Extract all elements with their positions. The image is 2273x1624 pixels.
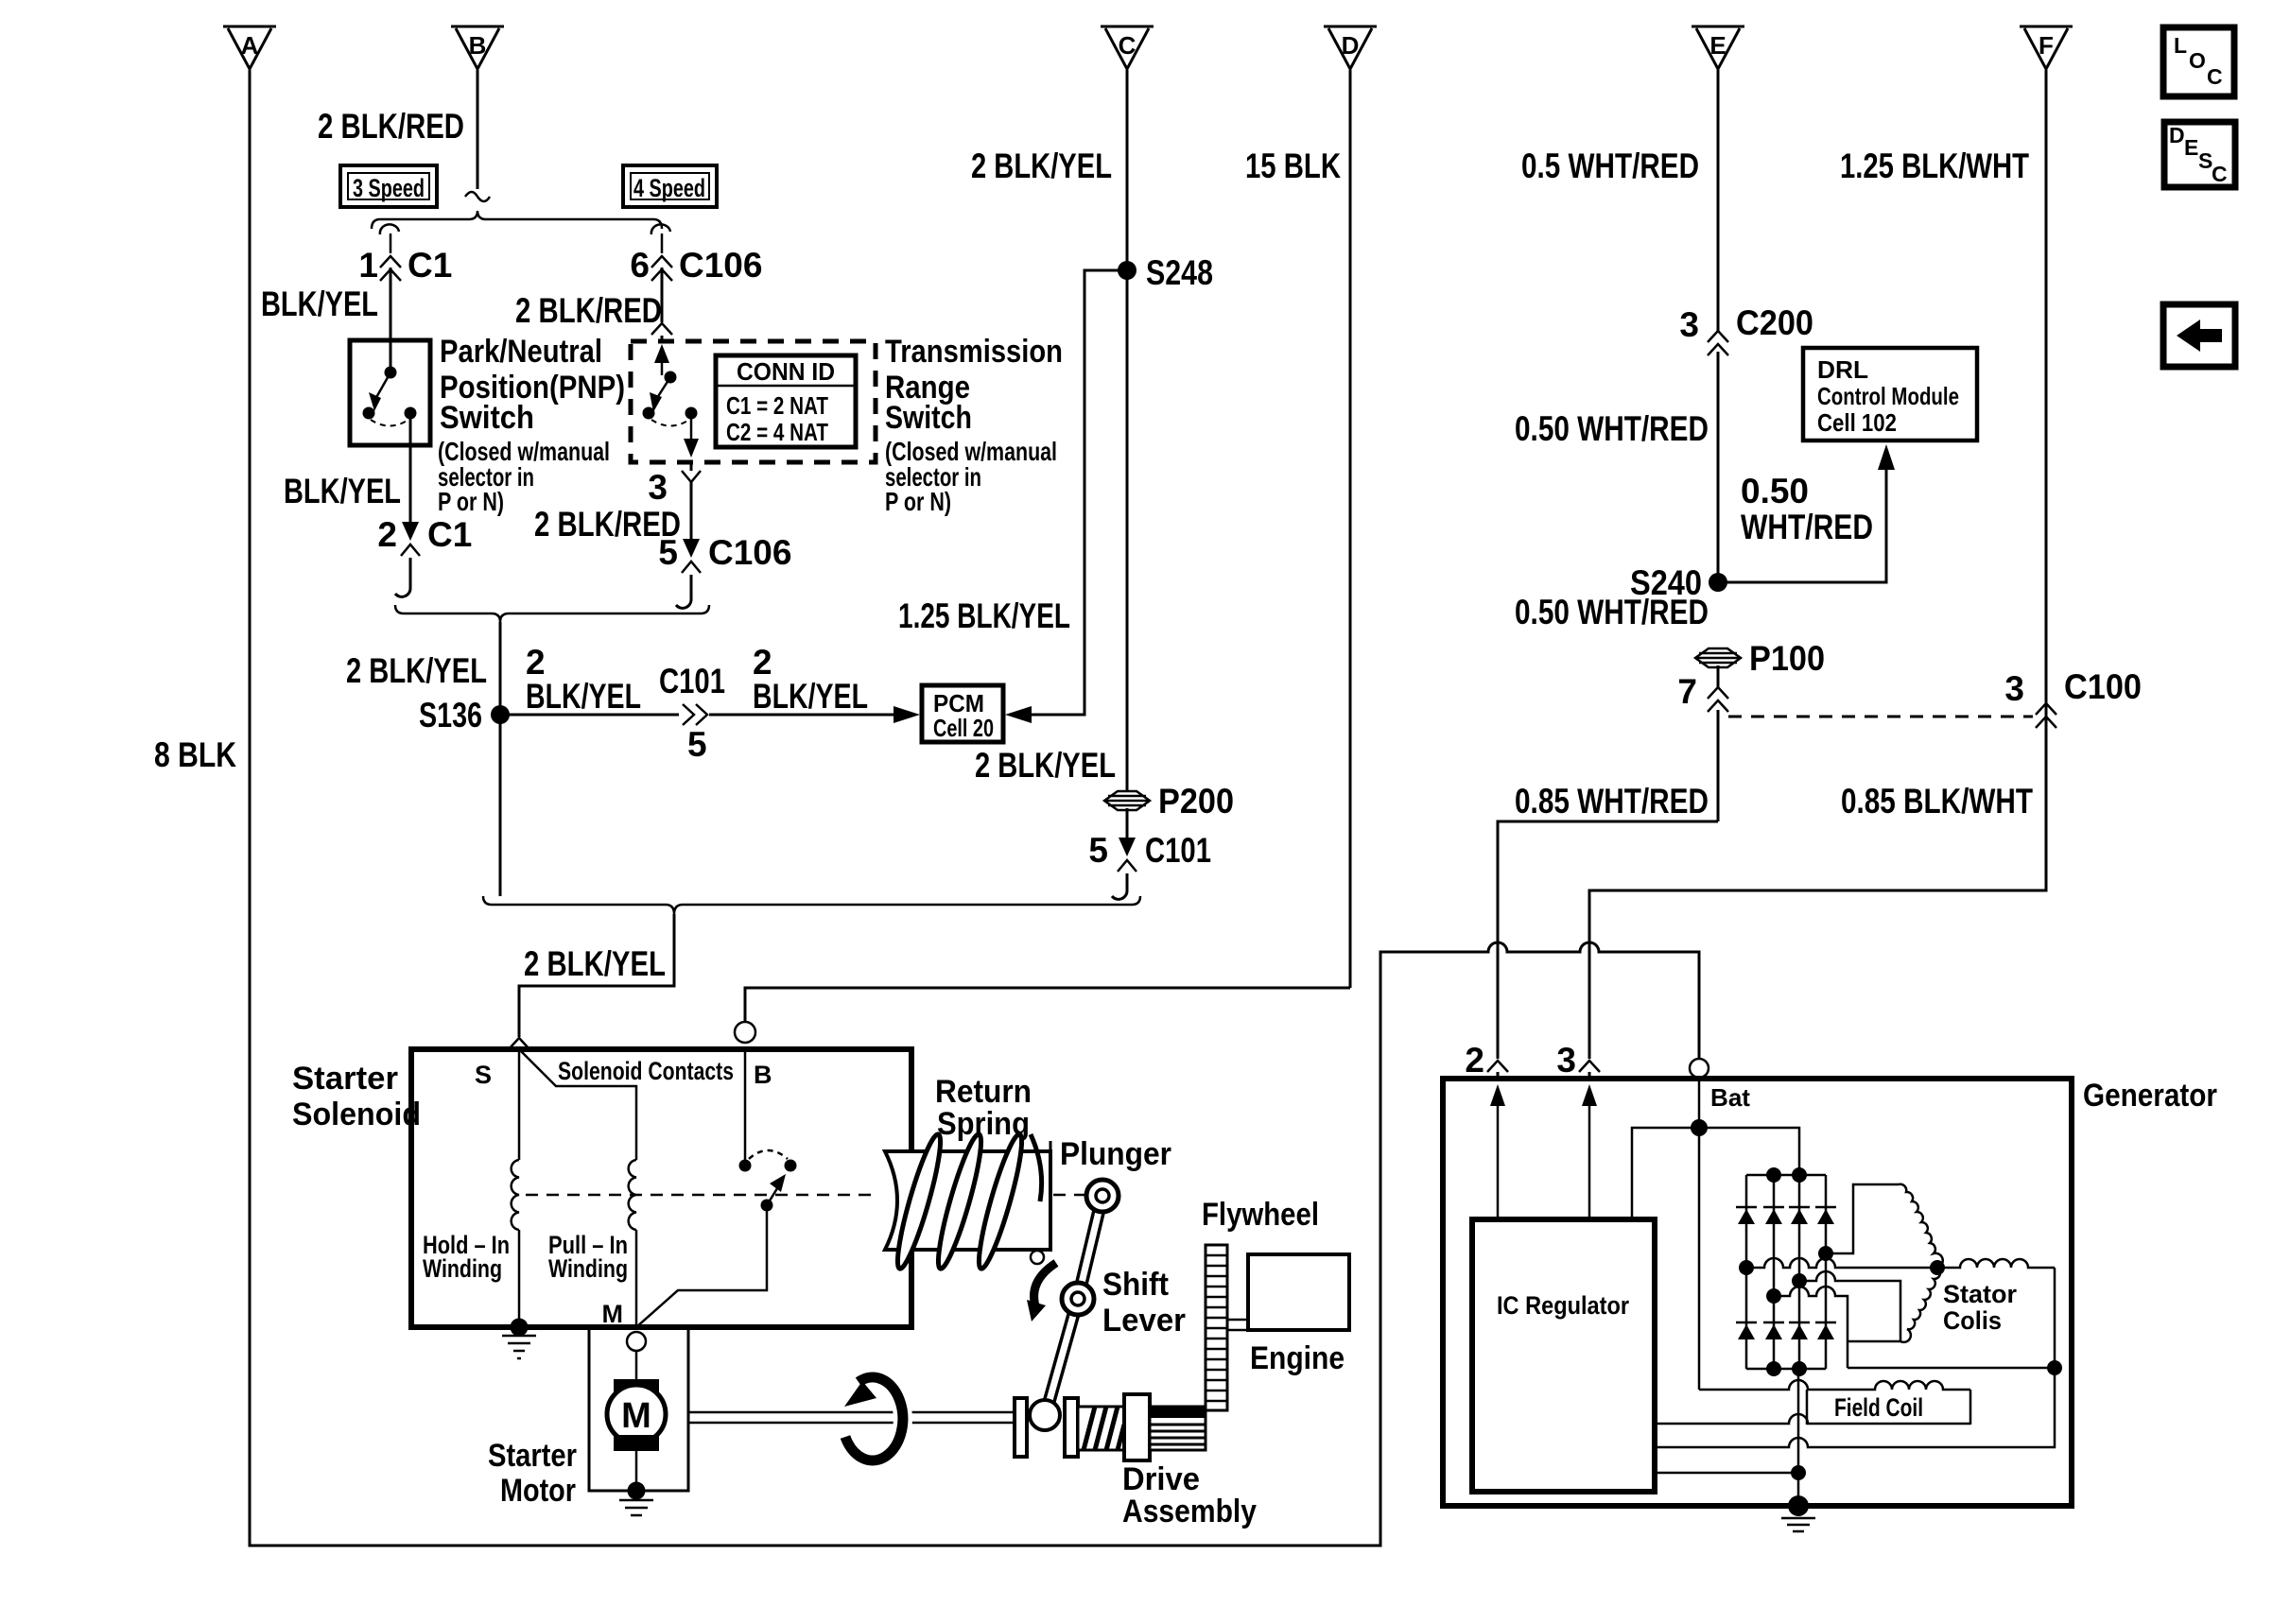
wire stator phase 2: [1799, 1271, 1900, 1341]
stator coil 2 (wavy): [1899, 1184, 1943, 1268]
pull-in winding coil: [629, 1160, 636, 1230]
svg-text:Starter: Starter: [292, 1061, 398, 1097]
svg-text:Solenoid Contacts: Solenoid Contacts: [558, 1057, 734, 1085]
junction col4 coil2 tap: [1818, 1246, 1833, 1261]
wire Bat into generator: [1698, 1078, 1701, 1128]
junction top rail col2: [1766, 1167, 1781, 1183]
connector C106 pin 6 hook: [651, 224, 670, 253]
svg-text:Field Coil: Field Coil: [1834, 1393, 1923, 1422]
solenoid fixed contact right: [785, 1160, 797, 1172]
svg-text:CONN ID: CONN ID: [737, 357, 835, 386]
wire terminal 2 into generator: [1497, 1072, 1500, 1079]
bridge column 3: [1798, 1175, 1801, 1369]
connector C106 pin 5 arrow: [683, 539, 700, 558]
svg-text:B: B: [469, 31, 487, 60]
wire 1.25 BLK/YEL S248 to PCM: [1032, 270, 1127, 715]
label Transmission Range Switch: [885, 334, 1063, 516]
LOC legend box: [2163, 27, 2234, 96]
svg-text:C106: C106: [708, 533, 791, 572]
svg-text:0.50 WHT/RED: 0.50 WHT/RED: [1515, 593, 1709, 631]
svg-text:C200: C200: [1736, 303, 1813, 342]
svg-text:2 BLK/RED: 2 BLK/RED: [318, 107, 464, 146]
TRS input arrow: [654, 344, 677, 384]
generator box: [1443, 1079, 2072, 1506]
back-arrow legend box: [2163, 304, 2235, 367]
svg-text:4 Speed: 4 Speed: [633, 174, 705, 202]
svg-text:Stator: Stator: [1943, 1280, 2017, 1308]
dashed wire pin7 to C100 pin3: [1728, 716, 2033, 718]
armature shaft: [688, 1412, 1015, 1423]
wire-drop triangle C: [1101, 26, 1154, 69]
splice S248: [1118, 261, 1136, 280]
svg-text:5: 5: [1088, 831, 1108, 870]
wire-drop triangle A: [223, 26, 276, 69]
Bat terminal circle: [1690, 1059, 1709, 1078]
label Starter Solenoid: [292, 1061, 421, 1132]
label Pull-In Winding: [548, 1231, 628, 1283]
svg-text:0.50: 0.50: [1741, 472, 1809, 510]
svg-text:L: L: [2174, 33, 2187, 58]
wire IC regulator output 1 (field): [1655, 1414, 1970, 1424]
svg-text:A: A: [241, 31, 259, 60]
solenoid fixed contact left: [739, 1160, 752, 1172]
junction stator star point: [1930, 1260, 1945, 1275]
svg-text:P100: P100: [1749, 639, 1825, 678]
junction top rail col3: [1792, 1167, 1807, 1183]
svg-text:6: 6: [630, 246, 650, 285]
wire pull-in to M terminal: [635, 1230, 638, 1327]
drive flange bar 3: [1124, 1394, 1150, 1460]
svg-text:P or N): P or N): [885, 487, 951, 516]
wire-drop triangle B: [451, 26, 504, 69]
generator input 3 arrow to IC regulator: [1582, 1084, 1597, 1219]
wire stator phase 1: [1746, 1258, 1937, 1268]
ground at hold-in winding: [502, 1319, 536, 1359]
wire 2 BLK/YEL S136 to C101: [500, 714, 679, 717]
svg-text:Assembly: Assembly: [1122, 1494, 1257, 1529]
wire hold-in to ground: [518, 1230, 521, 1327]
wire below P200: [1126, 808, 1129, 838]
wire-drop triangle E: [1692, 26, 1744, 69]
plunger body: [885, 1151, 1050, 1250]
rectifier bridge bottom rail: [1746, 1368, 1826, 1371]
shift lever mid pivot: [1062, 1283, 1094, 1315]
wire 8 BLK: A down left side, across bottom, up right of starter area, to Bat riser: [250, 70, 1699, 1546]
svg-text:BLK/YEL: BLK/YEL: [261, 285, 378, 323]
TRS movable arm: [643, 377, 671, 420]
solenoid contact dashed arc: [749, 1150, 788, 1159]
svg-text:C100: C100: [2064, 667, 2142, 706]
wire 0.5 WHT/RED E drop: [1717, 70, 1720, 582]
junction Bat node: [1691, 1119, 1708, 1136]
svg-text:2 BLK/YEL: 2 BLK/YEL: [524, 944, 666, 983]
starter motor brush bottom: [614, 1435, 659, 1451]
label Drive Assembly: [1122, 1461, 1257, 1529]
solenoid moving contact arm: [761, 1174, 787, 1212]
junction phase 3 tap: [1766, 1288, 1781, 1304]
wire 0.50 WHT/RED S240 to DRL: [1718, 444, 1895, 582]
svg-text:0.85 BLK/WHT: 0.85 BLK/WHT: [1841, 782, 2033, 821]
svg-text:C1: C1: [427, 515, 472, 554]
svg-text:5: 5: [687, 725, 707, 764]
wire 2 BLK/RED from B: [477, 70, 479, 189]
svg-text:Transmission: Transmission: [885, 334, 1063, 370]
drive collar bar 1: [1015, 1398, 1027, 1457]
PNP switch fixed contact: [405, 407, 417, 420]
wire terminal 3 into generator: [1588, 1072, 1591, 1079]
svg-text:Switch: Switch: [440, 400, 534, 436]
svg-text:Starter: Starter: [488, 1438, 577, 1474]
drive collar bar 2: [1065, 1398, 1078, 1457]
PNP switch movable arm: [363, 372, 391, 420]
svg-text:P200: P200: [1158, 782, 1234, 821]
return spring coil 3: [972, 1132, 1029, 1271]
starter motor M circle: [607, 1385, 666, 1443]
diode D8 lower: [1815, 1322, 1836, 1339]
svg-text:S: S: [475, 1061, 492, 1089]
field coil label box: [1807, 1390, 1970, 1425]
connector C1 pin 1 double chevron: [380, 256, 401, 281]
svg-text:F: F: [2039, 31, 2054, 60]
label Return Spring: [935, 1074, 1032, 1142]
junction phase 2 tap: [1792, 1273, 1807, 1288]
plunger pin circle: [1031, 1251, 1044, 1264]
label Hold-In Winding: [423, 1231, 510, 1283]
wire S feed split to pull-in winding: [519, 1049, 636, 1160]
svg-text:Winding: Winding: [548, 1254, 628, 1283]
brace merging C1/C106 outputs: [395, 605, 709, 622]
diode D2 upper: [1763, 1207, 1784, 1224]
PNP switch dashed travel arc: [371, 420, 408, 426]
svg-text:Solenoid: Solenoid: [292, 1097, 421, 1132]
svg-text:2: 2: [377, 515, 397, 554]
connector C101 pin 5 cup: [1118, 860, 1136, 872]
TRS fixed contact: [685, 407, 698, 420]
svg-text:IC Regulator: IC Regulator: [1497, 1291, 1629, 1320]
ground at starter motor: [619, 1482, 653, 1516]
chevron above generator terminal 3: [1579, 1061, 1600, 1072]
flywheel ring gear: [1206, 1245, 1227, 1410]
svg-text:5: 5: [658, 533, 678, 572]
svg-text:0.5 WHT/RED: 0.5 WHT/RED: [1521, 147, 1699, 185]
wire IC regulator output 2 (stator sense): [1655, 1368, 2055, 1447]
shift lever ball end: [1030, 1400, 1060, 1430]
wire from C106 pin 5 to options brace: [676, 575, 691, 608]
svg-text:C1 = 2 NAT: C1 = 2 NAT: [726, 391, 828, 420]
wire B terminal to D lead: [745, 988, 1350, 1022]
svg-text:Park/Neutral: Park/Neutral: [440, 334, 602, 370]
wire stator phase 3: [1774, 1287, 1848, 1368]
label Shift Lever: [1102, 1267, 1186, 1339]
wire from C1 pin 2 to options brace: [395, 558, 410, 596]
svg-text:Cell 102: Cell 102: [1817, 408, 1897, 437]
svg-text:2 BLK/YEL: 2 BLK/YEL: [975, 746, 1116, 785]
hold-in winding coil: [512, 1160, 519, 1230]
svg-text:BLK/YEL: BLK/YEL: [284, 472, 401, 510]
junction stator bottom right: [2047, 1360, 2062, 1375]
svg-text:2: 2: [1465, 1041, 1484, 1080]
return spring coil 1: [891, 1132, 947, 1271]
svg-text:O: O: [2189, 48, 2206, 73]
svg-text:15 BLK: 15 BLK: [1245, 147, 1341, 185]
connector C100 pin 7 chevrons: [1708, 687, 1728, 712]
wire below C101 to brace: [1112, 873, 1127, 899]
stator coil 1: [1937, 1259, 2055, 1268]
connector C200 pin 3 chevrons: [1708, 331, 1728, 355]
Park/Neutral Position switch box: [350, 340, 430, 445]
rectifier bridge top rail: [1746, 1174, 1826, 1177]
svg-text:C101: C101: [659, 662, 725, 700]
return spring coil 4 (partial): [1031, 1134, 1042, 1201]
svg-text:7: 7: [1677, 672, 1697, 711]
svg-text:B: B: [754, 1061, 772, 1089]
wire coil 2 lead: [1826, 1184, 1899, 1253]
svg-text:Bat: Bat: [1710, 1083, 1750, 1112]
diode D5 lower: [1736, 1322, 1757, 1339]
wire Bat node to rectifier bridge: [1699, 1128, 1799, 1175]
svg-text:E: E: [2184, 135, 2198, 160]
ground at generator case: [1781, 1495, 1815, 1531]
plunger end bar: [1050, 1141, 1052, 1252]
diode D4 upper: [1815, 1207, 1836, 1224]
svg-text:P or N): P or N): [438, 487, 504, 516]
starter motor brush top: [614, 1379, 659, 1395]
svg-text:Drive: Drive: [1122, 1461, 1200, 1497]
svg-text:D: D: [1342, 31, 1360, 60]
bridge column 1: [1745, 1175, 1748, 1369]
drive helix spline (hatched): [1078, 1407, 1124, 1450]
TRS output arrow to pin 3: [684, 413, 699, 458]
stator coil 3 (wavy): [1900, 1268, 1940, 1342]
svg-text:Winding: Winding: [423, 1254, 502, 1283]
wire moving contact to M: [636, 1205, 767, 1327]
3 Speed tag box: [340, 165, 437, 207]
wire IC regulator output 3 (ground): [1655, 1472, 1798, 1475]
svg-text:8 BLK: 8 BLK: [154, 735, 236, 774]
wire continuation tilde on B lead: [465, 192, 490, 201]
svg-text:Return: Return: [935, 1074, 1032, 1110]
connector C106 pin 6 double chevron: [651, 256, 672, 281]
wire E lead to generator terminal 2: [1498, 821, 1718, 1059]
B terminal circle: [735, 1022, 755, 1043]
svg-text:1.25 BLK/YEL: 1.25 BLK/YEL: [898, 596, 1070, 635]
wire motor to ground: [635, 1451, 638, 1491]
wire hold-in winding lead: [518, 1049, 521, 1160]
splice P200: [1104, 791, 1150, 810]
svg-text:C106: C106: [679, 246, 762, 285]
junction bottom rail col3: [1792, 1361, 1807, 1376]
svg-text:2 BLK/YEL: 2 BLK/YEL: [346, 651, 487, 690]
splice S240: [1709, 573, 1727, 592]
starter motor housing: [589, 1327, 688, 1491]
svg-text:Colis: Colis: [1943, 1306, 2002, 1335]
svg-text:C: C: [2212, 162, 2228, 186]
svg-text:1.25 BLK/WHT: 1.25 BLK/WHT: [1840, 147, 2029, 185]
svg-text:2 BLK/YEL: 2 BLK/YEL: [971, 147, 1112, 185]
svg-text:E: E: [1709, 31, 1726, 60]
junction phase 1 tap: [1739, 1260, 1754, 1275]
wire 1.25 BLK/WHT F drop: [1589, 70, 2046, 1059]
shift lever top pivot: [1086, 1180, 1119, 1212]
chevron above generator terminal 2: [1487, 1061, 1508, 1072]
TRS dashed travel arc: [651, 420, 689, 426]
wire coil1 to stator bottom: [2054, 1268, 2056, 1368]
svg-text:C: C: [2207, 64, 2223, 89]
PNP switch upper contact: [385, 340, 397, 379]
svg-text:C1: C1: [408, 246, 452, 285]
svg-text:Cell 20: Cell 20: [933, 714, 994, 742]
svg-text:DRL: DRL: [1817, 355, 1868, 384]
svg-text:Shift: Shift: [1102, 1267, 1169, 1303]
svg-text:C: C: [1119, 31, 1136, 60]
starter solenoid box: [411, 1049, 911, 1327]
wire coil3 link: [1848, 1340, 1900, 1343]
connector C1 pin 1 hook: [380, 224, 399, 253]
wire stator bottom: [1848, 1367, 2055, 1370]
brace merging 3-speed / 4-speed options under B: [372, 211, 662, 229]
diode D7 lower: [1789, 1322, 1810, 1339]
wire 2 BLK/YEL brace to S136: [499, 622, 502, 896]
bridge column 4: [1825, 1175, 1828, 1369]
4 Speed tag box: [623, 165, 717, 207]
IC Regulator box: [1472, 1219, 1655, 1492]
wire 15 BLK D drop: [1349, 70, 1352, 988]
brace merging S136 and C101 leads: [483, 896, 1140, 914]
chevron above solenoid S terminal: [509, 1038, 529, 1049]
svg-text:2: 2: [526, 643, 546, 682]
connector C1 pin 2 arrow: [402, 522, 419, 541]
engine box: [1248, 1254, 1349, 1330]
connector C1 pin 2 cup: [401, 544, 420, 556]
DRL Control Module box: [1803, 348, 1977, 441]
generator input 2 arrow to IC regulator: [1490, 1084, 1505, 1219]
svg-text:3: 3: [2004, 669, 2024, 708]
wire 2 BLK/YEL C101 to PCM: [709, 714, 894, 717]
svg-text:Control Module: Control Module: [1817, 382, 1959, 410]
wire below P100: [1717, 665, 1720, 821]
wire BLK/YEL from C1 pin 1 to PNP switch: [390, 268, 392, 372]
wire M to motor: [635, 1351, 638, 1379]
diode D1 upper: [1736, 1207, 1757, 1224]
shift lever arm: [1047, 1196, 1102, 1410]
connector C106 pin 5 cup: [682, 561, 701, 573]
splice P100: [1695, 648, 1741, 667]
svg-text:M: M: [602, 1300, 624, 1328]
flywheel hub link: [1227, 1320, 1248, 1330]
svg-text:Switch: Switch: [885, 400, 972, 436]
svg-text:Lever: Lever: [1102, 1303, 1186, 1339]
CONN ID table: [716, 355, 856, 447]
wire 2 BLK/YEL C drop: [1126, 70, 1129, 790]
svg-text:3 Speed: 3 Speed: [353, 174, 425, 202]
diode D6 lower: [1763, 1322, 1784, 1339]
svg-text:3: 3: [1556, 1041, 1576, 1080]
diode D3 upper: [1789, 1207, 1810, 1224]
svg-text:WHT/RED: WHT/RED: [1741, 508, 1873, 546]
label Stator Colis: [1943, 1280, 2017, 1335]
splice S136: [491, 705, 510, 724]
label 2 BLK/YEL (two lines): [526, 643, 641, 716]
svg-text:0.50 WHT/RED: 0.50 WHT/RED: [1515, 409, 1709, 448]
wire Bat node to IC regulator sense: [1632, 1128, 1699, 1219]
svg-text:3: 3: [1679, 305, 1699, 344]
svg-text:C101: C101: [1145, 831, 1211, 870]
Transmission Range switch dashed box: [631, 341, 876, 462]
connector C101 pin 5 arrow: [1119, 838, 1136, 856]
connector C101 pin 5 chevrons: [683, 704, 707, 725]
svg-text:1: 1: [358, 246, 378, 285]
junction bottom rail col2: [1766, 1361, 1781, 1376]
wire bridge to generator ground: [1797, 1369, 1800, 1506]
dashed plunger axis: [526, 1194, 1089, 1197]
svg-text:D: D: [2169, 123, 2185, 147]
svg-text:C2 = 4 NAT: C2 = 4 NAT: [726, 418, 828, 446]
DESC legend box: [2164, 122, 2235, 187]
lever motion arrow: [1027, 1263, 1056, 1322]
svg-text:Generator: Generator: [2083, 1078, 2217, 1114]
svg-text:BLK/YEL: BLK/YEL: [753, 677, 868, 716]
svg-text:M: M: [621, 1396, 651, 1436]
svg-text:0.85 WHT/RED: 0.85 WHT/RED: [1515, 782, 1709, 821]
connector C100 pin 3 chevrons: [2036, 703, 2056, 728]
M terminal circle: [627, 1332, 646, 1351]
wire-drop triangle D: [1324, 26, 1377, 69]
svg-text:Engine: Engine: [1250, 1340, 1345, 1376]
label Park/Neutral Position(PNP) Switch: [438, 334, 625, 516]
wire Bat node down to field coil: [1698, 1128, 1701, 1390]
svg-text:3: 3: [648, 468, 668, 507]
svg-text:S136: S136: [419, 696, 482, 734]
chevron below TRS box: [682, 471, 701, 482]
svg-text:2: 2: [753, 643, 772, 682]
wire BLK/YEL from PNP pin 2: [409, 413, 412, 522]
svg-text:Plunger: Plunger: [1060, 1136, 1171, 1172]
PCM box: [922, 685, 1003, 742]
bridge column 2: [1773, 1175, 1776, 1369]
wire-drop triangle F: [2020, 26, 2073, 69]
rotation arrow: [844, 1377, 903, 1460]
svg-text:2 BLK/RED: 2 BLK/RED: [515, 291, 662, 330]
svg-text:Motor: Motor: [500, 1473, 576, 1509]
wire 2 BLK/RED from C106 pin 6 to TRS: [661, 268, 664, 341]
drive pinion gear: [1150, 1407, 1206, 1450]
label 2 BLK/YEL (two lines): [753, 643, 868, 716]
wire 2 BLK/YEL brace to starter solenoid S: [519, 914, 674, 1051]
svg-text:Flywheel: Flywheel: [1202, 1197, 1319, 1233]
svg-text:BLK/YEL: BLK/YEL: [526, 677, 641, 716]
arrow into PCM left: [894, 706, 920, 723]
wire field coil top: [1699, 1380, 1970, 1390]
svg-text:S248: S248: [1146, 253, 1213, 292]
wire B terminal to fixed contact: [744, 1049, 747, 1166]
label Starter Motor: [488, 1438, 577, 1509]
return spring coil 2: [931, 1132, 988, 1271]
label 0.50 WHT/RED (two lines): [1741, 472, 1873, 546]
arrow into PCM right: [1005, 706, 1032, 723]
junction ground node: [1791, 1465, 1806, 1480]
wire 2 BLK/RED from TRS pin 3: [690, 462, 693, 539]
chevron above TRS box: [651, 323, 672, 335]
